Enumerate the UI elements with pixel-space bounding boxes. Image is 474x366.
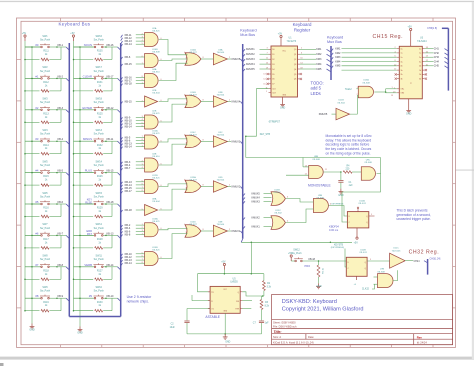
cell side wire: [60, 173, 62, 186]
wire: [136, 119, 145, 121]
svg-text:Sw_Push: Sw_Push: [40, 133, 51, 136]
resistor row wire: [74, 247, 94, 249]
bus entry: [327, 54, 332, 57]
cell side wire: [60, 47, 62, 60]
bus entry: [121, 260, 123, 263]
wire gate interconnect: [159, 234, 188, 259]
svg-text:KM3: KM3: [316, 58, 322, 61]
svg-text:KB-8: KB-8: [125, 233, 131, 237]
U3 unused output pin: [422, 69, 425, 71]
svg-text:on the rising edge of the puls: on the rising edge of the pulse.: [326, 152, 371, 156]
bus entry: [121, 162, 123, 165]
gate U7B 74LS08: [378, 274, 394, 288]
bus entry: [445, 53, 449, 56]
svg-text:KMUX3: KMUX3: [232, 140, 241, 144]
svg-text:Q6: Q6: [294, 79, 296, 81]
svg-text:KB-15: KB-15: [125, 62, 133, 66]
svg-text:74LS27: 74LS27: [189, 179, 197, 181]
svg-text:KM5: KM5: [335, 65, 341, 68]
cell side wire: [111, 235, 113, 248]
svg-text:D6: D6: [272, 79, 274, 81]
bus Keyboard Mux Bus right: [330, 46, 332, 80]
bus entry: [243, 64, 245, 67]
resistor row wire: [25, 59, 40, 61]
svg-text:CH0[1.24]: CH0[1.24]: [430, 258, 441, 261]
svg-text:74LS04: 74LS04: [217, 224, 225, 226]
U1 unused input pin: [269, 73, 272, 75]
svg-text:KB-14: KB-14: [107, 264, 115, 267]
svg-text:1a: 1a: [419, 53, 421, 55]
wire KM2: [300, 53, 316, 55]
cell side wire: [60, 204, 62, 217]
bus entry: [121, 210, 123, 213]
capacitor C2 10uF: [186, 309, 188, 321]
svg-text:OEa: OEa: [401, 89, 405, 91]
IC U5 LM555 astable: [210, 286, 240, 313]
gate U15B 74LS21: [145, 252, 159, 266]
bus entry: [106, 297, 118, 299]
switch SW15 (KEY RLSE): [80, 203, 94, 205]
svg-text:SW13: SW13: [95, 129, 102, 132]
wire CH1: [425, 48, 434, 50]
bus entry: [106, 140, 118, 142]
svg-text:KB-4: KB-4: [58, 138, 64, 141]
wire R2R3 to 555 pins: [242, 292, 264, 296]
svg-text:KMUX4: KMUX4: [232, 100, 241, 104]
bus entry: [121, 81, 123, 84]
svg-text:#6: #6: [35, 231, 39, 235]
resistor row wire: [25, 153, 40, 155]
svg-text:CLK32: CLK32: [362, 288, 370, 290]
bus CH32 stub: [427, 259, 429, 275]
U1 output pin 0: [298, 48, 301, 50]
svg-text:74LS04: 74LS04: [337, 102, 345, 104]
svg-text:CH15 Reg.: CH15 Reg.: [373, 34, 404, 40]
svg-text:Sw_Push: Sw_Push: [94, 227, 105, 230]
U1 unused input pin: [269, 83, 272, 85]
wire: [136, 164, 145, 166]
svg-text:74LS04: 74LS04: [217, 52, 225, 54]
svg-text:RLSE: RLSE: [85, 201, 92, 205]
svg-text:74LS02: 74LS02: [274, 213, 282, 215]
bus entry: [241, 187, 243, 190]
buffer output wire: [227, 186, 231, 188]
buffer U3E 74LS04: [213, 225, 227, 237]
bus entry: [106, 109, 118, 111]
cell side wire: [60, 110, 62, 123]
svg-text:Q3: Q3: [294, 64, 296, 66]
wire U10B Q to buffer: [367, 260, 390, 262]
bus entry: [121, 254, 123, 257]
ground 555: [223, 334, 228, 339]
wire: [136, 161, 145, 163]
U1 input pin 3: [269, 48, 272, 50]
wire to buffer: [207, 230, 213, 232]
wire gate interconnect: [159, 184, 188, 187]
svg-text:Sw_Push: Sw_Push: [94, 133, 105, 136]
svg-text:KB-7: KB-7: [58, 232, 64, 235]
bus entry: [121, 102, 123, 105]
wire: [136, 56, 145, 58]
bus entry: [121, 182, 123, 185]
switch SW10 (#9): [80, 297, 94, 299]
svg-text:LM555: LM555: [230, 281, 238, 284]
wire KM5: [300, 68, 316, 70]
U10B bottom +5 stub: [356, 276, 358, 280]
svg-text:2b: 2b: [401, 74, 403, 76]
svg-text:74LS27: 74LS27: [189, 94, 197, 96]
power +5V 555: [221, 260, 226, 269]
svg-text:Mux Bus: Mux Bus: [240, 33, 255, 37]
bus entry: [106, 266, 118, 268]
bus entry: [121, 225, 123, 228]
svg-text:KM1: KM1: [316, 48, 322, 51]
wire: [264, 197, 272, 199]
cell side wire: [111, 47, 113, 60]
svg-text:SW17: SW17: [95, 66, 102, 69]
wire KM5 to U3: [342, 65, 397, 67]
IC U1 74LS273 keyboard register: [271, 46, 298, 97]
bus entry: [57, 46, 66, 48]
svg-text:0b: 0b: [401, 66, 403, 68]
bus entry CH32: [424, 261, 428, 263]
U3 input pin 6: [397, 56, 400, 58]
svg-text:#4: #4: [35, 169, 39, 173]
svg-text:0a: 0a: [401, 48, 403, 50]
svg-text:PLUS: PLUS: [85, 169, 92, 173]
buffer output wire: [227, 230, 231, 232]
U1 output pin 1: [298, 53, 301, 55]
svg-text:U11C: U11C: [393, 248, 399, 250]
bus bottom link: [69, 316, 120, 318]
svg-text:KB-11: KB-11: [107, 138, 114, 141]
bus entry: [327, 49, 332, 52]
buffer U3A 74LS04: [213, 53, 227, 65]
gate U13C 74LS02: [271, 216, 285, 230]
svg-text:LEDs: LEDs: [311, 91, 321, 96]
gate U14C 74LS27: [185, 135, 201, 148]
window edge bottom strip: [0, 357, 474, 360]
wire KM4 to U3: [342, 61, 397, 63]
svg-text:Q4: Q4: [294, 69, 296, 71]
cell side wire: [60, 298, 62, 311]
svg-text:KB-14: KB-14: [125, 145, 133, 149]
wire U8B output: [323, 171, 341, 173]
wire KM1 to U3: [342, 48, 397, 50]
U1 ground: [282, 97, 284, 102]
cell side wire: [60, 78, 62, 91]
svg-text:KMUX2: KMUX2: [232, 185, 241, 189]
U1 input pin 5: [269, 58, 272, 60]
svg-text:74LS04: 74LS04: [217, 180, 225, 182]
bus entry: [243, 69, 245, 72]
svg-text:ENTER: ENTER: [83, 106, 92, 110]
svg-text:Rev: Rev: [417, 336, 423, 340]
U3 unused output pin: [422, 78, 425, 80]
bus entry: [57, 77, 66, 79]
svg-text:#7: #7: [35, 263, 39, 267]
wire to buffer: [207, 186, 213, 188]
bus entry: [121, 147, 123, 150]
svg-text:74L327: 74L327: [273, 192, 281, 194]
svg-text:Date:: Date:: [308, 335, 314, 339]
svg-text:GND: GND: [280, 107, 286, 110]
wire: [136, 184, 145, 186]
bus entry: [121, 127, 123, 130]
svg-text:U15A: U15A: [152, 217, 158, 220]
svg-text:GND: GND: [406, 113, 412, 116]
svg-text:SW11: SW11: [96, 255, 103, 258]
svg-text:DSKY-KBD: Keyboard: DSKY-KBD: Keyboard: [282, 299, 337, 305]
svg-text:PRO: PRO: [305, 264, 311, 268]
svg-text:U13A: U13A: [363, 79, 369, 82]
cell side wire: [111, 110, 113, 123]
U1 output pin 3: [298, 63, 301, 65]
gate output wire: [201, 58, 207, 60]
svg-text:Keyboard Bus: Keyboard Bus: [59, 22, 91, 27]
power +5V PRO switch: [288, 252, 293, 261]
svg-text:File: DSKY-KBD.sch: File: DSKY-KBD.sch: [273, 325, 297, 329]
buffer U11B 74LS04: [336, 108, 350, 120]
wire CH5: [425, 65, 434, 67]
window edge top strip: [0, 1, 474, 2]
svg-text:#3: #3: [35, 137, 39, 141]
power +5V rail col@25: [22, 32, 27, 41]
resistor row wire: [25, 121, 40, 123]
wire: [260, 48, 269, 50]
bus entry: [243, 201, 245, 204]
bus entry: [106, 46, 118, 48]
bus entry: [243, 54, 245, 57]
wire: [136, 101, 145, 103]
wire U8C output feedback: [377, 158, 381, 174]
bus entry: [57, 172, 66, 174]
svg-text:Sw_Push: Sw_Push: [40, 290, 51, 293]
svg-text:CH1: CH1: [434, 48, 440, 51]
switch SW16 (NOUN): [74, 46, 94, 48]
svg-text:KB-14: KB-14: [125, 125, 133, 129]
bus entry: [445, 66, 449, 69]
wire U1 clock net: [246, 89, 269, 137]
capacitor C1: [340, 172, 342, 180]
wire U9B output: [329, 206, 348, 217]
wire: [136, 187, 145, 189]
svg-text:74LS08: 74LS08: [152, 52, 160, 54]
svg-text:KB-16: KB-16: [107, 44, 115, 47]
svg-text:Sw_Push: Sw_Push: [40, 258, 51, 261]
svg-text:74LS08: 74LS08: [364, 162, 372, 164]
svg-text:-STRB/PST: -STRB/PST: [268, 121, 281, 123]
svg-text:D1: D1: [272, 54, 274, 56]
svg-text:CH2: CH2: [434, 52, 440, 55]
U1 output pin 2: [298, 58, 301, 60]
svg-text:Keyboard: Keyboard: [240, 28, 256, 32]
svg-text:3b: 3b: [401, 79, 403, 81]
svg-text:KB-2: KB-2: [58, 75, 64, 78]
resistor R2 3.3k: [263, 281, 266, 291]
wire: [260, 53, 269, 55]
bus entry: [243, 218, 245, 221]
bus entry: [57, 297, 66, 299]
wire: [136, 63, 145, 65]
svg-text:CLEAR: CLEAR: [83, 74, 92, 78]
bus entry: [57, 109, 66, 111]
svg-text:D4: D4: [272, 69, 274, 71]
svg-text:+5V: +5V: [408, 25, 413, 28]
svg-text:Sw_Push: Sw_Push: [40, 195, 51, 198]
svg-text:D7: D7: [272, 84, 274, 86]
svg-text:KB-6: KB-6: [58, 201, 64, 204]
power +5V rail col@73.5: [70, 32, 75, 41]
bus entry: [57, 266, 66, 268]
svg-text:SW3: SW3: [42, 98, 48, 101]
wire CH2: [425, 52, 434, 54]
switch SW14 (PLUS): [80, 172, 94, 174]
wire U13B out to U9B: [286, 199, 314, 203]
svg-text:network chips.: network chips.: [127, 299, 149, 303]
flip-flop U10B 74LS74: [346, 257, 367, 276]
resistor row wire: [74, 59, 94, 61]
svg-text:Sw_Push: Sw_Push: [40, 38, 51, 41]
cell side wire: [60, 267, 62, 280]
wire 555 left drops: [198, 274, 211, 292]
svg-text:KM4: KM4: [335, 60, 341, 63]
gate U4A 74LS10: [145, 74, 159, 88]
svg-text:Sw_Push: Sw_Push: [94, 38, 105, 41]
svg-text:74LS21: 74LS21: [152, 133, 160, 135]
resistor row wire: [25, 90, 40, 92]
svg-text:#0: #0: [35, 43, 39, 47]
resistor row wire: [74, 310, 94, 312]
wire: [136, 256, 145, 258]
resistor row wire: [74, 278, 94, 280]
wire: [260, 63, 269, 65]
bus entry: [106, 172, 118, 174]
cell side wire: [111, 78, 113, 91]
gate U2B 74LS04: [145, 96, 158, 107]
svg-text:D3: D3: [272, 64, 274, 66]
wire: [136, 136, 145, 138]
bus Keyboard Bus right: [120, 43, 122, 317]
svg-text:74LS21: 74LS21: [152, 113, 160, 115]
bus entry: [121, 44, 123, 47]
gate output wire: [201, 101, 207, 103]
svg-text:KB-17: KB-17: [125, 189, 133, 193]
svg-text:#5: #5: [35, 200, 39, 204]
buffer output wire: [227, 58, 231, 60]
gate U4B 74LS10: [145, 158, 159, 172]
wire KM1: [300, 48, 316, 50]
column chain wire: [79, 47, 81, 327]
svg-text:U2A: U2A: [152, 27, 157, 30]
wire to buffer: [207, 141, 213, 143]
gate U2A 74LS21: [145, 33, 159, 47]
ground R5: [316, 283, 321, 288]
svg-text:+5V: +5V: [278, 32, 283, 35]
svg-text:2b: 2b: [419, 74, 421, 76]
wire buffer out CH24: [405, 260, 413, 262]
bus entry: [121, 231, 123, 234]
gate U12A 74LS21: [145, 135, 159, 149]
bus Keyboard Bus left: [68, 43, 70, 317]
svg-text:Size: A: Size: A: [273, 335, 281, 339]
svg-text:74LS08: 74LS08: [312, 159, 320, 161]
switch SW2 (#1): [32, 77, 40, 79]
svg-text:CH5: CH5: [434, 65, 440, 68]
svg-text:Register: Register: [294, 28, 311, 33]
wire U7B in1: [374, 276, 378, 278]
svg-text:KMUX1: KMUX1: [246, 48, 255, 51]
gate U8C 74LS08 monostable second: [361, 167, 375, 181]
svg-text:U8A: U8A: [152, 198, 157, 201]
resistor row wire: [25, 184, 40, 186]
wire U13A output to OE: [374, 91, 385, 93]
wire 555 top rail: [198, 273, 264, 275]
wire: [136, 262, 145, 264]
svg-text:(KEYPRESS): (KEYPRESS): [331, 247, 345, 249]
svg-text:KMUX5: KMUX5: [319, 113, 328, 116]
wire: [136, 143, 145, 145]
resistor row wire: [74, 216, 94, 218]
svg-text:KEY_STB: KEY_STB: [260, 134, 271, 136]
svg-text:GND: GND: [317, 286, 322, 288]
resistor R5 pulldown: [317, 265, 320, 277]
switch SW18 (ENTER): [80, 109, 94, 111]
svg-text:74LS04: 74LS04: [217, 135, 225, 137]
svg-text:0a: 0a: [419, 48, 421, 50]
svg-text:ASTABLE: ASTABLE: [205, 315, 220, 319]
svg-text:.1uF: .1uF: [348, 185, 353, 187]
wire U11B input: [332, 113, 337, 115]
bus entry: [327, 64, 332, 67]
bus entry: [121, 185, 123, 188]
bus entry: [331, 53, 333, 56]
svg-text:SW4: SW4: [42, 129, 48, 132]
bus entry: [121, 144, 123, 147]
svg-text:VERB: VERB: [84, 263, 92, 267]
bus entry: [243, 194, 245, 197]
svg-text:KM3: KM3: [335, 56, 341, 59]
svg-text:+5V: +5V: [221, 260, 226, 263]
svg-text:SW7: SW7: [42, 223, 48, 226]
gate output wire: [201, 230, 207, 232]
svg-text:74LS244: 74LS244: [417, 40, 427, 43]
svg-text:74LS21: 74LS21: [152, 250, 160, 252]
U1 clock pin: [269, 88, 272, 90]
svg-text:KMUX5: KMUX5: [232, 57, 241, 61]
wire gate interconnect: [159, 228, 188, 229]
bus entry: [121, 137, 123, 140]
gate U14A 74LS27: [185, 53, 201, 66]
U10B D input wire: [345, 249, 346, 268]
U3 input pin 10: [397, 65, 400, 67]
wire: [136, 123, 145, 125]
cell side wire: [111, 173, 113, 186]
555 pin stubs: [208, 291, 210, 293]
bus entry: [121, 57, 123, 60]
wire: [136, 253, 145, 255]
svg-text:74LS27: 74LS27: [189, 134, 197, 136]
wire: [136, 40, 145, 42]
svg-text:CH32 Reg.: CH32 Reg.: [409, 250, 440, 256]
wire: [136, 230, 145, 232]
bus entry: [241, 142, 243, 145]
svg-text:KMUX3: KMUX3: [246, 58, 255, 61]
wire: [136, 76, 145, 78]
svg-text:D2: D2: [272, 59, 274, 61]
wire gate interconnect: [159, 59, 188, 61]
switch SW1 (#0): [25, 46, 40, 48]
